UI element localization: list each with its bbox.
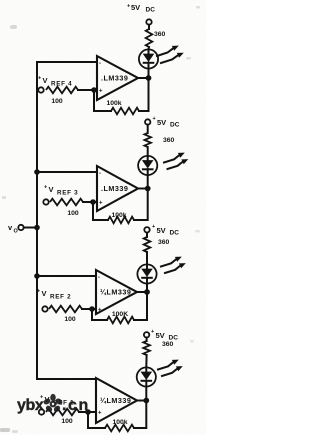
resistor 100k positive feedback (stage 1) (105, 419, 134, 431)
node +5V DC supply terminal (stage 1) (144, 329, 178, 342)
resistor 360 ohm LED current limit (stage 2) (144, 233, 170, 253)
junction: U1 output / LED1 cathode (143, 398, 149, 404)
wire: 100k resistor up to output of U2 (134, 292, 147, 320)
node +5V DC supply terminal (stage 4) (127, 3, 155, 25)
junction: bus tap for comparator U3 (34, 169, 40, 175)
wire: output of U1 to LED cathode column (137, 400, 146, 402)
wire: output of U4 to LED cathode column (138, 77, 149, 79)
wire: feedback from + input node of U2 down to 100k resistor (92, 309, 107, 320)
wire: VO terminal to bus (24, 227, 37, 229)
LED indicator D1 (137, 355, 156, 401)
wire: 100k resistor up to output of U1 (134, 401, 146, 429)
resistor 360 ohm LED current limit (stage 3) (144, 125, 174, 147)
wire: bus to inverting input of comparator U4 (37, 61, 97, 63)
wire: 100k resistor up to output of U3 (134, 189, 148, 221)
LED indicator D3 (138, 147, 157, 189)
resistor 100 ohm input (stage VREF2) (49, 306, 82, 323)
wire: 100 ohm resistor to non-inverting input of U4 (78, 89, 97, 91)
resistor 360 ohm LED current limit (stage 4) (146, 25, 166, 47)
LED1 light emission arrows (158, 360, 183, 376)
wire: feedback from + input node of U3 down to 100k resistor (93, 202, 108, 220)
junction: feedback node at + input of U1 (85, 409, 91, 415)
op-amp U4 comparator 1/4 LM339 (97, 56, 138, 100)
wire: bus to inverting input of comparator U3 (37, 171, 97, 173)
resistor 100k positive feedback (stage 3) (108, 212, 134, 223)
op-amp U3 comparator 1/4 LM339 (97, 166, 138, 211)
resistor 100 ohm input (stage VREF4) (46, 87, 78, 105)
wire: feedback from + input node of U4 down to 100k resistor (94, 90, 111, 111)
resistor 100 ohm input (stage VREF3) (50, 199, 83, 217)
wire: 100k resistor up to output of U4 (139, 78, 149, 111)
resistor 100k positive feedback (stage 4) (106, 100, 139, 114)
junction: feedback node at + input of U3 (90, 199, 96, 205)
wire: output of U3 to LED cathode column (138, 188, 148, 190)
junction: U2 output / LED2 cathode (144, 289, 150, 295)
LED4 light emission arrows (157, 46, 184, 63)
resistor 100k positive feedback (stage 2) (107, 311, 134, 323)
wire: left vertical bus from node VO to comparator inputs (36, 62, 38, 379)
node +5V DC supply terminal (stage 2) (144, 224, 179, 237)
junction: bus tap for comparator U2 (34, 273, 40, 279)
wire: 100 ohm resistor to non-inverting input of U3 (83, 201, 97, 203)
node +VREF4 input terminal (38, 76, 72, 93)
decorative scan noise (not a circuit element) (0, 6, 200, 433)
LED indicator D2 (137, 252, 156, 292)
wire: 100 ohm resistor to non-inverting input of U2 (82, 308, 96, 310)
wire: bus to inverting input of comparator U2 (37, 275, 96, 277)
LED indicator D4 (139, 47, 158, 78)
node +VREF2 input terminal (37, 289, 71, 312)
wire: feedback from + input node of U1 down to 100k resistor (88, 412, 105, 428)
op-amp U1 comparator 1/4 LM339 (96, 378, 137, 423)
resistor 100 ohm input (stage VREF1) (46, 409, 79, 425)
op-amp U2 comparator 1/4 LM339 (96, 270, 137, 314)
junction: U4 output / LED4 cathode (146, 75, 152, 81)
junction: feedback node at + input of U4 (91, 87, 97, 93)
node +VREF3 input terminal (43, 185, 78, 205)
junction: VO joins bus (34, 225, 40, 231)
wire: output of U2 to LED cathode column (137, 291, 147, 293)
wire: 100 ohm resistor to non-inverting input of U1 (79, 411, 96, 413)
node VO input terminal (8, 223, 24, 235)
node +5V DC supply terminal (stage 3) (145, 116, 180, 129)
LED3 light emission arrows (164, 153, 188, 169)
resistor 360 ohm LED current limit (stage 1) (143, 338, 173, 356)
wire: bus to inverting input of comparator U1 (37, 378, 96, 380)
LED2 light emission arrows (161, 257, 186, 273)
decorative watermark (not labelled as circuit) (17, 394, 90, 414)
node +VREF1 input terminal (39, 395, 75, 415)
junction: feedback node at + input of U2 (89, 306, 95, 312)
junction: U3 output / LED3 cathode (145, 186, 151, 192)
